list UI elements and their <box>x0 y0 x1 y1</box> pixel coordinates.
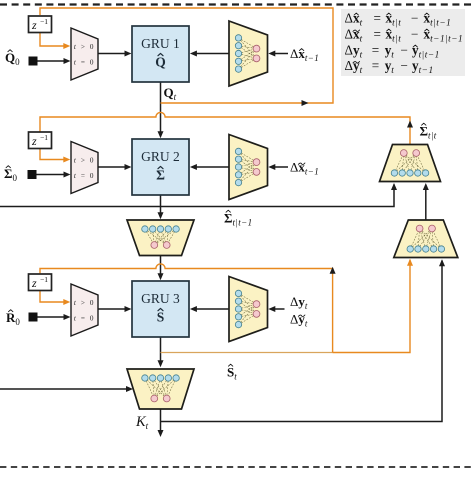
svg-text:t > 0: t > 0 <box>74 43 95 51</box>
svg-text:Q: Q <box>155 55 166 70</box>
svg-text:−1: −1 <box>40 133 48 142</box>
svg-text:−1: −1 <box>40 17 48 26</box>
svg-text:z: z <box>31 18 37 32</box>
svg-text:t = 0: t = 0 <box>74 59 95 67</box>
svg-text:GRU 1: GRU 1 <box>141 36 180 51</box>
svg-text:t > 0: t > 0 <box>74 157 95 165</box>
svg-text:Σ: Σ <box>156 168 165 183</box>
svg-text:S: S <box>157 310 165 325</box>
svg-text:z: z <box>31 276 37 290</box>
svg-text:t = 0: t = 0 <box>74 315 95 323</box>
svg-text:t > 0: t > 0 <box>74 299 95 307</box>
svg-text:z: z <box>31 134 37 148</box>
svg-text:GRU 2: GRU 2 <box>141 149 180 164</box>
svg-text:GRU 3: GRU 3 <box>141 291 180 306</box>
svg-text:−1: −1 <box>40 275 48 284</box>
svg-text:t = 0: t = 0 <box>74 172 95 180</box>
